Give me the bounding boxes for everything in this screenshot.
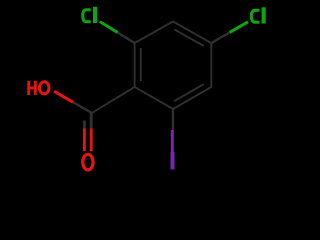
label HO : O glyph xyxy=(40,82,50,94)
benzene ring outline xyxy=(135,22,212,110)
bond C(carboxyl)-OH red half xyxy=(54,91,73,102)
double bond C=O second line gray half xyxy=(83,121,86,129)
label Cl left : C glyph xyxy=(83,10,91,22)
label Cl right : l glyph xyxy=(262,7,266,23)
label Cl right : C glyph xyxy=(251,10,259,22)
bond C6-I gray half xyxy=(172,109,174,130)
aromatic inner bond bottom-right xyxy=(174,84,204,101)
label O carbonyl xyxy=(83,154,93,170)
bond C4-Cl gray half xyxy=(211,32,229,43)
aromatic inner bond top-right xyxy=(174,29,204,46)
label Cl left : l glyph xyxy=(93,7,97,23)
label I iodo xyxy=(171,152,175,170)
double bond C=O second line red half xyxy=(83,129,86,152)
aromatic inner bond left xyxy=(140,48,142,81)
double bond C=O main line gray half xyxy=(90,113,93,129)
bond C6-I purple half xyxy=(171,130,174,153)
bond C1-C(carboxyl) xyxy=(92,87,135,113)
label HO : H glyph xyxy=(27,81,36,95)
bond C2-Cl green half xyxy=(100,22,118,33)
bond C4-Cl green half xyxy=(230,22,248,33)
double bond C=O main line red half xyxy=(90,129,93,152)
bond C(carboxyl)-OH gray half xyxy=(73,102,92,113)
bond C2-Cl gray half xyxy=(117,32,134,43)
